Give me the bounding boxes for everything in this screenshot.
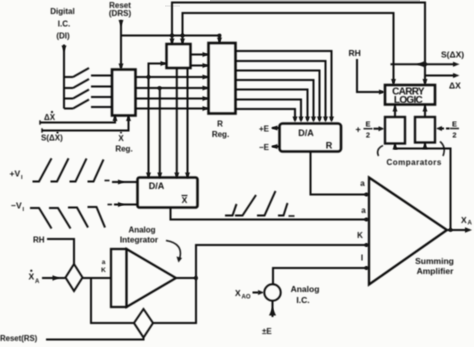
svg-text:Digital: Digital [50,7,74,16]
svg-text:2: 2 [452,130,456,139]
svg-text:Integrator: Integrator [120,236,159,245]
svg-text:(DRS): (DRS) [109,9,132,18]
svg-text:X: X [461,215,467,225]
svg-text:+: + [356,125,361,135]
svg-text:ΔX: ΔX [449,81,461,91]
svg-text:a: a [360,179,365,188]
svg-text:+E: +E [259,125,270,134]
svg-text:Analog: Analog [128,226,155,235]
svg-text:K: K [101,267,106,274]
svg-text:R: R [217,120,223,129]
svg-text:K: K [357,231,363,240]
svg-text:RH: RH [33,236,45,245]
svg-text:Amplifier: Amplifier [417,266,455,276]
svg-text:Comparators: Comparators [387,158,442,167]
svg-text:a: a [102,259,106,266]
svg-text:2: 2 [366,131,370,140]
svg-text:AO: AO [242,295,251,301]
svg-text:Reg.: Reg. [212,130,229,139]
svg-text:X: X [29,272,35,282]
svg-text:A: A [468,220,473,226]
svg-text:R: R [326,141,333,151]
svg-text:X: X [182,195,188,205]
svg-text:Reset(RS): Reset(RS) [0,334,38,343]
svg-text:D/A: D/A [149,181,165,191]
svg-text:RH: RH [349,48,361,58]
svg-text:−V: −V [11,201,22,211]
svg-text:±E: ±E [262,327,272,336]
svg-text:I.C.: I.C. [58,20,70,29]
svg-text:X: X [235,288,241,298]
svg-text:LOGIC: LOGIC [394,95,423,106]
svg-text:E: E [365,120,370,129]
svg-text:I.C.: I.C. [296,295,309,305]
svg-text:+V: +V [10,169,21,179]
svg-text:D/A: D/A [298,128,314,138]
svg-text:A: A [35,279,40,285]
svg-text:S(ΔX): S(ΔX) [441,50,464,60]
svg-text:X: X [118,134,124,143]
svg-text:(DI): (DI) [56,32,70,41]
svg-text:Summing: Summing [415,256,454,266]
svg-text:S(ΔX): S(ΔX) [41,134,63,143]
svg-text:I: I [361,254,363,263]
svg-text:E: E [452,119,457,128]
svg-text:−E: −E [259,143,270,152]
svg-text:Reg.: Reg. [115,145,132,154]
svg-text:Analog: Analog [291,284,320,294]
svg-text:a: a [361,206,366,215]
svg-text:ΔX: ΔX [44,113,56,122]
